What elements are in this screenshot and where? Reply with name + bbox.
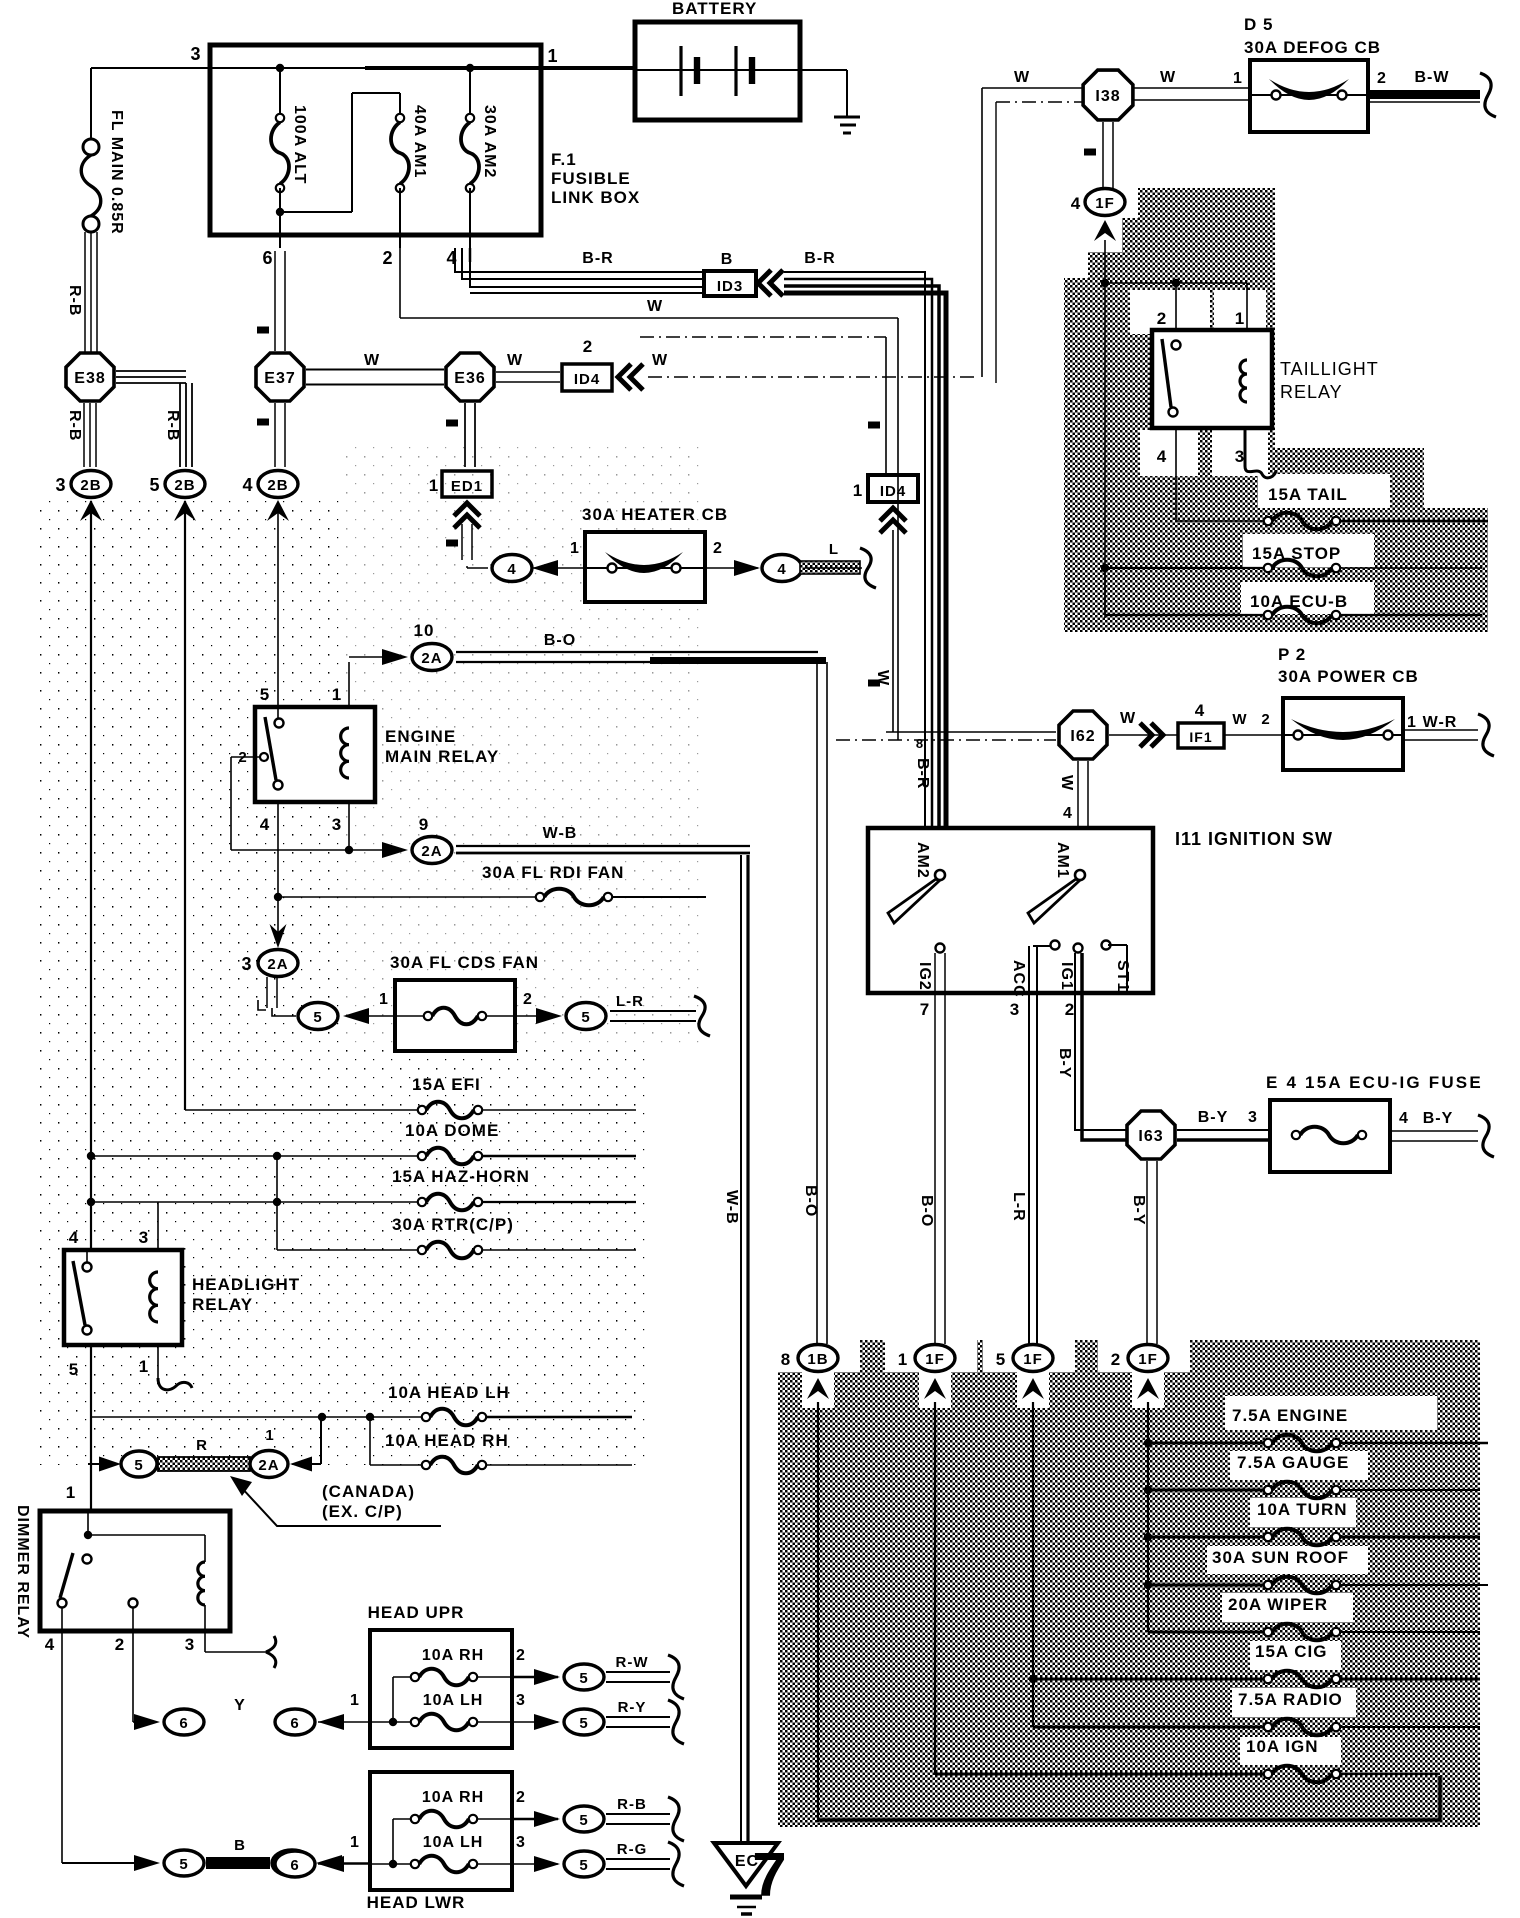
svg-text:W-B: W-B	[543, 825, 578, 842]
svg-text:RELAY: RELAY	[192, 1295, 253, 1314]
svg-text:2: 2	[115, 1635, 125, 1654]
svg-text:1F: 1F	[1095, 195, 1115, 212]
svg-text:30A SUN ROOF: 30A SUN ROOF	[1212, 1548, 1349, 1567]
svg-text:2: 2	[516, 1789, 526, 1806]
svg-text:ACC: ACC	[1010, 960, 1027, 998]
svg-text:10A HEAD RH: 10A HEAD RH	[385, 1431, 509, 1450]
svg-text:B-Y: B-Y	[1056, 1048, 1073, 1079]
svg-text:I11 IGNITION SW: I11 IGNITION SW	[1175, 829, 1333, 849]
svg-text:30A POWER CB: 30A POWER CB	[1278, 667, 1419, 686]
svg-text:6: 6	[290, 1857, 299, 1874]
svg-text:5: 5	[581, 1009, 590, 1026]
svg-text:1: 1	[350, 1692, 360, 1709]
svg-text:B-Y: B-Y	[1423, 1110, 1454, 1127]
svg-text:W-R: W-R	[1423, 714, 1458, 731]
svg-text:7: 7	[920, 1000, 930, 1019]
svg-text:AM2: AM2	[914, 842, 931, 879]
svg-text:P 2: P 2	[1278, 645, 1306, 664]
svg-text:B-W: B-W	[1415, 69, 1450, 86]
svg-text:7: 7	[752, 1841, 787, 1910]
svg-text:L-R: L-R	[1010, 1192, 1027, 1222]
svg-text:2A: 2A	[421, 650, 442, 667]
svg-text:ID4: ID4	[574, 371, 600, 388]
svg-text:2B: 2B	[267, 477, 288, 494]
svg-text:3: 3	[516, 1834, 526, 1851]
svg-text:1: 1	[332, 685, 342, 704]
svg-text:W: W	[1160, 69, 1176, 86]
svg-text:4: 4	[777, 561, 786, 578]
svg-text:7.5A RADIO: 7.5A RADIO	[1238, 1690, 1343, 1709]
svg-text:10A LH: 10A LH	[423, 1834, 484, 1851]
svg-text:1: 1	[570, 540, 580, 557]
svg-text:W: W	[364, 352, 380, 369]
svg-text:15A CIG: 15A CIG	[1255, 1642, 1328, 1661]
svg-text:RELAY: RELAY	[1280, 382, 1343, 402]
svg-text:7.5A ENGINE: 7.5A ENGINE	[1232, 1406, 1348, 1425]
svg-text:5: 5	[579, 1857, 588, 1874]
svg-text:15A HAZ-HORN: 15A HAZ-HORN	[392, 1167, 530, 1186]
svg-text:4: 4	[1063, 805, 1073, 822]
svg-text:3: 3	[139, 1228, 149, 1247]
svg-text:(EX. C/P): (EX. C/P)	[322, 1502, 403, 1521]
svg-text:5: 5	[69, 1360, 79, 1379]
svg-text:FUSIBLE: FUSIBLE	[551, 169, 631, 188]
svg-text:B-R: B-R	[914, 758, 931, 789]
svg-text:30A RTR(C/P): 30A RTR(C/P)	[392, 1215, 514, 1234]
svg-text:3: 3	[1248, 1109, 1258, 1126]
svg-text:30A HEATER CB: 30A HEATER CB	[582, 505, 728, 524]
svg-text:MAIN RELAY: MAIN RELAY	[385, 747, 499, 766]
svg-text:15A EFI: 15A EFI	[412, 1075, 481, 1094]
svg-text:10A ECU-B: 10A ECU-B	[1250, 592, 1348, 611]
svg-text:6: 6	[179, 1715, 188, 1732]
svg-text:2: 2	[516, 1647, 526, 1664]
svg-text:W: W	[1014, 69, 1030, 86]
svg-text:30A AM2: 30A AM2	[481, 105, 498, 178]
svg-text:10A HEAD LH: 10A HEAD LH	[388, 1383, 510, 1402]
svg-text:I38: I38	[1095, 88, 1120, 105]
svg-text:R-Y: R-Y	[618, 1699, 647, 1716]
svg-text:7.5A GAUGE: 7.5A GAUGE	[1237, 1453, 1349, 1472]
svg-text:30A FL RDI FAN: 30A FL RDI FAN	[482, 863, 624, 882]
svg-text:L-R: L-R	[616, 993, 644, 1010]
svg-text:6: 6	[290, 1715, 299, 1732]
svg-text:IG1: IG1	[1058, 962, 1075, 991]
svg-text:4: 4	[260, 815, 270, 834]
svg-text:1: 1	[1235, 309, 1245, 328]
svg-text:5: 5	[579, 1812, 588, 1829]
svg-text:10: 10	[414, 621, 435, 640]
svg-text:B-O: B-O	[544, 632, 576, 649]
svg-text:L: L	[829, 541, 839, 558]
svg-text:3: 3	[516, 1692, 526, 1709]
svg-text:5: 5	[579, 1670, 588, 1687]
svg-text:15A TAIL: 15A TAIL	[1268, 485, 1348, 504]
svg-text:10A IGN: 10A IGN	[1246, 1737, 1319, 1756]
svg-text:2: 2	[583, 337, 593, 356]
svg-text:B: B	[234, 1837, 246, 1854]
svg-text:2B: 2B	[80, 477, 101, 494]
svg-text:4: 4	[1399, 1110, 1409, 1127]
svg-text:4: 4	[242, 475, 253, 495]
svg-text:2: 2	[1157, 309, 1167, 328]
svg-text:2A: 2A	[258, 1457, 279, 1474]
svg-text:8: 8	[781, 1350, 791, 1369]
svg-text:5: 5	[579, 1715, 588, 1732]
svg-text:B: B	[721, 251, 734, 268]
svg-text:5: 5	[996, 1350, 1006, 1369]
svg-text:1: 1	[379, 991, 389, 1008]
svg-text:1F: 1F	[1023, 1351, 1043, 1368]
svg-text:3: 3	[55, 475, 66, 495]
svg-text:3: 3	[241, 954, 252, 974]
svg-text:1: 1	[350, 1834, 360, 1851]
svg-text:4: 4	[1195, 701, 1205, 720]
svg-text:ST1: ST1	[1114, 960, 1131, 992]
svg-text:ENGINE: ENGINE	[385, 727, 456, 746]
svg-text:W: W	[652, 352, 668, 369]
svg-text:B-R: B-R	[804, 250, 835, 267]
svg-text:F.1: F.1	[551, 150, 577, 169]
svg-text:1: 1	[429, 476, 439, 495]
svg-text:FL MAIN 0.85R: FL MAIN 0.85R	[108, 110, 125, 235]
svg-text:LINK BOX: LINK BOX	[551, 188, 640, 207]
svg-text:W: W	[1120, 710, 1136, 727]
svg-text:10A LH: 10A LH	[423, 1692, 484, 1709]
svg-text:4: 4	[45, 1635, 55, 1654]
svg-text:B-O: B-O	[918, 1195, 935, 1227]
svg-text:R: R	[196, 1437, 208, 1454]
svg-text:100A ALT: 100A ALT	[291, 105, 308, 184]
svg-text:1: 1	[265, 1427, 274, 1444]
svg-text:6: 6	[262, 248, 273, 268]
svg-text:3: 3	[332, 815, 342, 834]
svg-text:R-B: R-B	[617, 1796, 647, 1813]
svg-text:5: 5	[149, 475, 160, 495]
svg-text:R-W: R-W	[616, 1654, 649, 1671]
svg-text:ID4: ID4	[880, 483, 906, 500]
svg-text:30A FL CDS FAN: 30A FL CDS FAN	[390, 953, 539, 972]
svg-text:1: 1	[1233, 70, 1243, 87]
svg-text:2A: 2A	[421, 843, 442, 860]
svg-text:W-B: W-B	[723, 1190, 740, 1225]
svg-text:2: 2	[1261, 711, 1270, 728]
svg-text:R-B: R-B	[66, 285, 83, 316]
svg-text:1B: 1B	[807, 1351, 828, 1368]
svg-text:9: 9	[419, 815, 429, 834]
svg-text:E 4 15A ECU-IG FUSE: E 4 15A ECU-IG FUSE	[1266, 1073, 1483, 1092]
svg-text:10A DOME: 10A DOME	[405, 1121, 499, 1140]
svg-text:1F: 1F	[1138, 1351, 1158, 1368]
svg-text:BATTERY: BATTERY	[672, 0, 757, 18]
svg-text:5: 5	[134, 1457, 143, 1474]
svg-text:W: W	[647, 298, 663, 315]
svg-text:AM1: AM1	[1054, 842, 1071, 879]
svg-text:1: 1	[898, 1350, 908, 1369]
svg-text:B-Y: B-Y	[1130, 1195, 1147, 1226]
svg-text:E36: E36	[454, 370, 485, 387]
svg-text:B-R: B-R	[582, 250, 613, 267]
svg-text:5: 5	[179, 1856, 188, 1873]
svg-text:2A: 2A	[267, 956, 288, 973]
svg-text:D 5: D 5	[1244, 15, 1273, 34]
svg-text:2: 2	[1111, 1350, 1121, 1369]
svg-text:2: 2	[1377, 70, 1387, 87]
svg-text:ED1: ED1	[451, 478, 483, 495]
svg-text:Y: Y	[234, 1697, 246, 1714]
svg-text:I62: I62	[1070, 728, 1095, 745]
svg-text:5: 5	[260, 685, 270, 704]
svg-text:30A DEFOG CB: 30A DEFOG CB	[1244, 38, 1381, 57]
svg-text:1: 1	[547, 46, 558, 66]
svg-text:W: W	[1232, 711, 1247, 728]
svg-text:HEAD UPR: HEAD UPR	[368, 1603, 465, 1622]
svg-text:10A RH: 10A RH	[422, 1789, 484, 1806]
svg-text:5: 5	[313, 1009, 322, 1026]
svg-text:HEAD LWR: HEAD LWR	[367, 1893, 466, 1912]
svg-text:B-Y: B-Y	[1198, 1109, 1229, 1126]
svg-text:10A TURN: 10A TURN	[1257, 1500, 1348, 1519]
svg-text:HEADLIGHT: HEADLIGHT	[192, 1275, 300, 1294]
svg-text:2: 2	[382, 248, 393, 268]
svg-text:W: W	[507, 352, 523, 369]
svg-text:4: 4	[507, 561, 516, 578]
svg-text:1F: 1F	[925, 1351, 945, 1368]
svg-text:1: 1	[1407, 714, 1417, 731]
svg-text:ID3: ID3	[717, 278, 743, 295]
svg-text:(CANADA): (CANADA)	[322, 1482, 415, 1501]
svg-text:4: 4	[1071, 194, 1081, 213]
svg-text:E37: E37	[264, 370, 295, 387]
svg-text:R-B: R-B	[66, 410, 83, 441]
svg-text:3: 3	[190, 44, 201, 64]
svg-text:2: 2	[523, 991, 533, 1008]
svg-text:E38: E38	[74, 370, 105, 387]
svg-text:1: 1	[139, 1357, 149, 1376]
svg-text:R-G: R-G	[617, 1841, 648, 1858]
svg-text:IF1: IF1	[1189, 729, 1212, 745]
svg-text:8: 8	[916, 736, 924, 751]
svg-text:1: 1	[66, 1483, 76, 1502]
svg-text:TAILLIGHT: TAILLIGHT	[1280, 359, 1379, 379]
svg-text:20A WIPER: 20A WIPER	[1228, 1595, 1328, 1614]
svg-text:4: 4	[69, 1228, 79, 1247]
svg-text:IG2: IG2	[916, 962, 933, 991]
svg-text:R-B: R-B	[164, 410, 181, 441]
svg-text:DIMMER RELAY: DIMMER RELAY	[14, 1505, 31, 1639]
svg-text:W: W	[1058, 775, 1075, 791]
svg-text:3: 3	[185, 1635, 195, 1654]
svg-text:40A AM1: 40A AM1	[411, 105, 428, 178]
svg-text:2: 2	[713, 540, 723, 557]
svg-text:B-O: B-O	[802, 1185, 819, 1217]
svg-text:4: 4	[1157, 447, 1167, 466]
svg-text:10A RH: 10A RH	[422, 1647, 484, 1664]
svg-text:2B: 2B	[174, 477, 195, 494]
svg-text:1: 1	[853, 481, 863, 500]
svg-text:2: 2	[1065, 1000, 1075, 1019]
svg-text:I63: I63	[1138, 1128, 1163, 1145]
svg-text:3: 3	[1010, 1000, 1020, 1019]
